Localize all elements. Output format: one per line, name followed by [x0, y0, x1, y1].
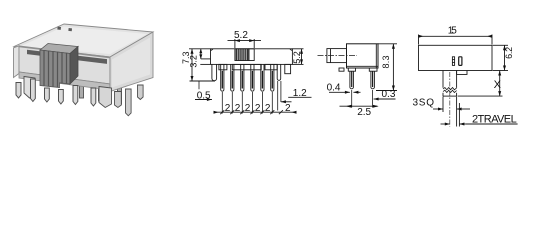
- svg-text:8.3: 8.3: [381, 56, 391, 69]
- svg-text:0.3: 0.3: [382, 89, 396, 100]
- svg-text:2: 2: [265, 103, 271, 114]
- svg-text:3SQ: 3SQ: [413, 98, 435, 109]
- svg-text:1.2: 1.2: [293, 88, 307, 99]
- svg-text:5.2: 5.2: [234, 30, 248, 41]
- svg-text:6.2: 6.2: [504, 47, 514, 59]
- svg-text:5.2: 5.2: [292, 51, 302, 64]
- svg-text:3.2: 3.2: [189, 55, 199, 68]
- svg-text:2TRAVEL: 2TRAVEL: [472, 113, 517, 125]
- svg-text:2: 2: [235, 103, 241, 114]
- svg-text:2: 2: [285, 103, 291, 114]
- svg-text:2: 2: [225, 103, 231, 114]
- svg-text:2: 2: [245, 103, 251, 114]
- svg-text:15: 15: [448, 26, 457, 37]
- svg-text:X: X: [494, 79, 502, 91]
- svg-text:2.5: 2.5: [357, 107, 371, 118]
- svg-text:0.4: 0.4: [327, 83, 341, 94]
- svg-text:0.5: 0.5: [197, 91, 211, 102]
- svg-text:2: 2: [255, 103, 261, 114]
